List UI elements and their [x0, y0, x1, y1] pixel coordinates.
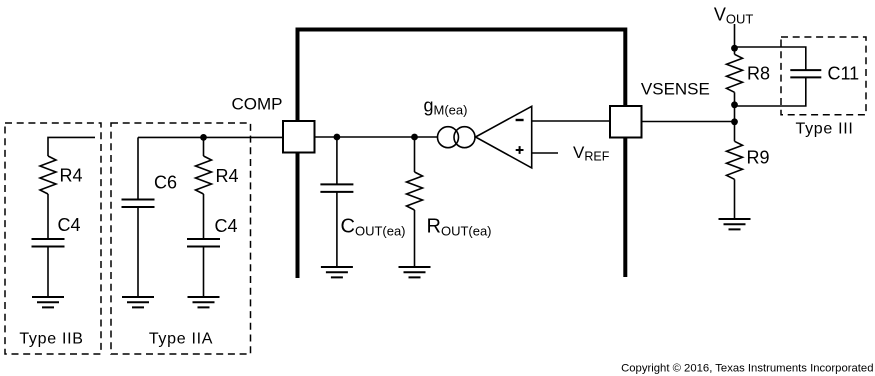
op-amp plus sign [516, 146, 524, 154]
svg-text:Type IIA: Type IIA [149, 331, 213, 348]
resistor R4 (Type IIA) [196, 156, 212, 194]
svg-text:R4: R4 [60, 166, 83, 186]
ground (COUT) [321, 267, 353, 277]
wire R9 to ground [734, 179, 736, 219]
node junction (VOUT / R8 top) [731, 45, 738, 52]
svg-text:C4: C4 [58, 215, 81, 235]
wire to R4 (Type IIA) [203, 137, 205, 156]
node junction (feedback node) [731, 118, 738, 125]
wire node to R9 [734, 122, 736, 142]
svg-text:Copyright © 2016, Texas Instru: Copyright © 2016, Texas Instruments Inco… [621, 363, 873, 375]
wire ROUT to ground [414, 210, 416, 267]
svg-text:R9: R9 [747, 148, 770, 168]
svg-text:R4: R4 [216, 166, 239, 186]
svg-text:R8: R8 [747, 64, 770, 84]
ground (ROUT) [399, 267, 431, 277]
resistor ROUT(ea) [407, 172, 423, 210]
node junction (COUT tap) [334, 134, 341, 141]
wire VSENSE to divider node [642, 121, 735, 123]
ground (R9) [719, 219, 751, 229]
ground (Type IIB) [32, 297, 64, 307]
capacitor C6 [122, 200, 155, 208]
node junction (Type IIA) [200, 134, 207, 141]
resistor R4 (Type IIB) [40, 156, 56, 194]
Type IIB dashed box [5, 123, 101, 354]
svg-text:C6: C6 [154, 173, 177, 193]
wire R4 to C4 (Type IIA) [203, 194, 205, 239]
svg-text:Type IIB: Type IIB [19, 331, 83, 348]
Type III dashed box [781, 37, 866, 115]
node junction (R8 bottom / C11) [731, 101, 738, 108]
op-amp minus sign [516, 119, 524, 121]
transconductance gm(ea) circle 1 [438, 127, 459, 148]
IC block outline [298, 30, 626, 279]
capacitor COUT(ea) [320, 184, 353, 192]
capacitor C11 [790, 70, 821, 77]
op-amp U1 error amplifier triangle [476, 106, 532, 168]
wire C6 to ground [137, 207, 139, 297]
wire noninverting input to VREF [532, 152, 558, 154]
wire to ROUT(ea) [414, 137, 416, 172]
svg-text:C11: C11 [828, 64, 860, 84]
wire to R8 [734, 48, 736, 54]
wire C11 top branch [735, 47, 806, 70]
resistor R8 [727, 54, 743, 92]
svg-text:COMP: COMP [232, 95, 283, 114]
resistor R9 [727, 141, 743, 179]
wire to COUT(ea) [336, 137, 338, 184]
wire C4 to ground (Type IIA) [203, 247, 205, 298]
ground (Type IIA C4) [188, 297, 220, 307]
wire C4 to ground (Type IIB) [47, 247, 49, 298]
svg-text:C4: C4 [215, 216, 238, 236]
ground (C6) [122, 297, 154, 307]
wire COMP to gm input [315, 136, 438, 138]
wire R8 bottom [734, 92, 736, 122]
VSENSE pin box [610, 106, 642, 138]
capacitor C4 (Type IIA) [187, 239, 220, 247]
capacitor C4 (Type IIB) [32, 239, 65, 247]
svg-text:VSENSE: VSENSE [641, 80, 710, 99]
wire COUT to ground [336, 192, 338, 267]
wire VOUT down [734, 24, 736, 48]
wire inverting input to VSENSE [532, 120, 610, 122]
transconductance gm(ea) circle 2 [454, 127, 475, 148]
wire to C6 [137, 137, 139, 199]
wire R4 to C4 (Type IIB) [47, 194, 49, 239]
wire COMP net (Type IIA to COMP pin) [138, 136, 283, 138]
Type IIA dashed box [111, 123, 251, 354]
svg-text:Type III: Type III [796, 120, 854, 137]
node junction (ROUT tap) [411, 134, 418, 141]
wire C11 bottom branch [735, 77, 806, 106]
COMP pin box [283, 121, 315, 153]
wire stub Type IIB [48, 137, 95, 156]
